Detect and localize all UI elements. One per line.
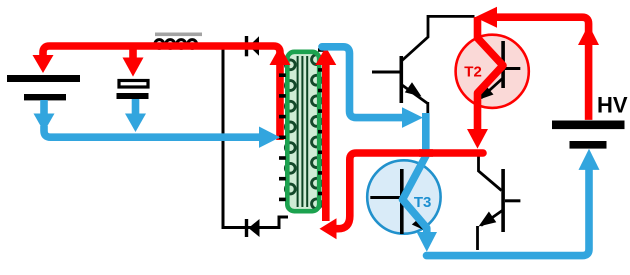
red wire: drop to capacitor C1: [129, 46, 137, 58]
transformer left-side tap stubs (over red wire): [279, 73, 286, 201]
red wire: top-left rail with battery loop (down arrow into B1, corner, up arrow from transformer): [43, 46, 280, 140]
svg-text:T3: T3: [414, 194, 432, 211]
red wire: mid rail over blue crossing (redraw red on top): [419, 149, 433, 157]
transformer TX1 core lines: [297, 56, 309, 207]
blue arrowhead up into HV battery minus: [579, 149, 600, 170]
blue wire: bottom-right rail and HV return riser: [427, 166, 590, 256]
blue wire: bottom-left return rail: [44, 126, 260, 137]
transformer TX1 secondary winding bumps (right): [312, 55, 322, 209]
red arrowhead up into top rail (from transformer primary): [270, 46, 291, 65]
transistor Q3 symbol inside T3 (black): [370, 156, 428, 234]
svg-text:T2: T2: [464, 64, 482, 81]
blue arrowhead right into Q1 emitter node: [402, 107, 423, 128]
blue arrowhead down from T3 to bottom rail: [417, 232, 437, 252]
battery B1 plates (left low-voltage battery): [7, 75, 80, 100]
blue wire: transformer top to Q1 emitter node: [322, 47, 402, 118]
red wire: through transistor T2: [478, 17, 504, 129]
red arrowhead left into T2 collector node: [475, 7, 497, 28]
transistor Q2 symbol inside T2 (black, mirrored): [478, 39, 520, 101]
red wire: mid rail to transformer bottom (U-turn): [337, 153, 484, 229]
blue wire: down through transistor T3: [403, 113, 427, 232]
red wire: up along transformer secondary: [322, 62, 330, 221]
red arrowhead into capacitor C1: [123, 58, 144, 77]
capacitor C1: [117, 81, 149, 100]
red arrowhead into battery B1: [33, 55, 54, 73]
blue arrow from capacitor C1 bottom to bottom rail: [132, 99, 140, 114]
red arrowhead up on HV riser: [578, 25, 599, 46]
transistor T3 circle: [367, 160, 440, 233]
red arrowhead down from T2 to mid rail: [467, 129, 488, 149]
inductor L1 core bar: [155, 33, 202, 37]
HV battery B2 plates: [552, 121, 625, 149]
transformer TX1 primary winding bumps (left): [285, 60, 295, 194]
svg-text:HV: HV: [597, 93, 628, 118]
blue arrowhead into transformer primary bottom: [259, 127, 280, 148]
transistor T2 circle: [456, 35, 529, 108]
transistor Q4 (lower black NPN, mirrored): [478, 155, 521, 250]
red arrowhead left into transformer secondary bottom: [320, 218, 337, 239]
blue arrow from battery B1 minus to bottom rail: [40, 100, 48, 114]
diode D2 (bottom snubber diode): [245, 219, 260, 237]
inductor L1 winding: [155, 40, 197, 49]
transformer TX1 body fill: [287, 52, 319, 211]
wire: snubber branch from top rail down at x=223: [223, 45, 288, 228]
diode D1 (top, on red rail): [245, 36, 259, 56]
transistor Q1 (upper black NPN): [372, 16, 475, 115]
transformer right-side tap stubs: [318, 48, 326, 195]
red wire: HV riser and top-right feed: [496, 17, 589, 120]
red arrowhead up at transformer secondary top: [315, 47, 336, 65]
transformer TX1 border: [287, 52, 319, 211]
